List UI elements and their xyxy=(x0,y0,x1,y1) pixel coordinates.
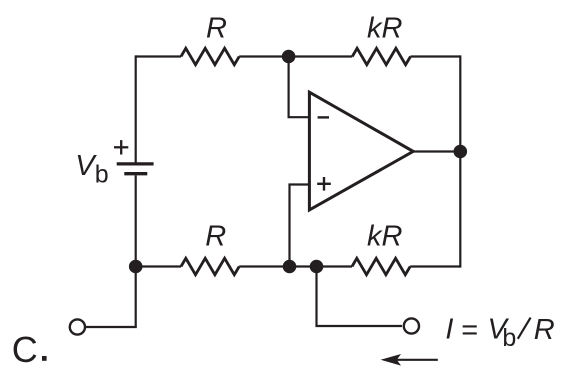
svg-text:=: = xyxy=(461,314,478,346)
wire inverting input stub (from top node) xyxy=(289,57,310,118)
op-amp U1 triangle xyxy=(309,92,413,210)
wire left terminal horizontal xyxy=(86,326,137,328)
battery V1 top plate (long, +) xyxy=(117,162,154,165)
terminal circle left xyxy=(70,319,85,334)
op-amp minus sign (inverting input marker) xyxy=(318,116,329,118)
resistor R2 (top kR) xyxy=(352,48,410,64)
terminal circle right xyxy=(404,318,419,333)
wire top rail middle segment xyxy=(239,55,352,57)
svg-text:C: C xyxy=(12,329,38,370)
svg-text:kR: kR xyxy=(367,13,403,45)
wire non-inverting input stub (from bottom node) xyxy=(290,185,310,267)
battery V1 bottom plate (short, -) xyxy=(124,172,147,175)
resistor R1 (top R) xyxy=(181,48,239,64)
svg-text:I: I xyxy=(445,314,453,346)
svg-text:R: R xyxy=(534,314,555,346)
wire bottom rail middle segment xyxy=(239,265,352,267)
node dot bottom middle-right (output terminal branch) xyxy=(310,260,324,274)
node dot top (junction of R, kR, inverting input) xyxy=(282,50,296,64)
wire op-amp output xyxy=(413,150,460,152)
wire left rail upper (to battery) xyxy=(135,55,137,163)
wire bottom rail left segment xyxy=(136,265,181,267)
svg-text:kR: kR xyxy=(367,220,403,252)
resistor R3 (bottom R) xyxy=(181,258,239,274)
node dot bottom middle-left (non-inverting branch) xyxy=(283,260,297,274)
wire top rail left segment xyxy=(136,55,181,57)
resistor R4 (bottom kR) xyxy=(352,258,410,274)
wire top rail right segment xyxy=(411,55,461,57)
battery V1 plus sign xyxy=(114,140,128,154)
svg-text:b: b xyxy=(502,324,516,352)
current direction arrow xyxy=(392,359,438,361)
node dot bottom-left (battery branch) xyxy=(129,260,143,274)
wire left rail lower (battery to bottom terminal) xyxy=(135,175,137,327)
svg-text:R: R xyxy=(205,220,226,252)
svg-text:b: b xyxy=(95,160,109,188)
wire output terminal drop xyxy=(317,267,403,327)
wire right rail xyxy=(459,55,461,267)
wire bottom rail right segment xyxy=(410,265,460,267)
svg-text:R: R xyxy=(206,13,227,45)
op-amp plus sign (non-inverting input marker) xyxy=(317,177,331,191)
node dot output xyxy=(454,145,468,159)
